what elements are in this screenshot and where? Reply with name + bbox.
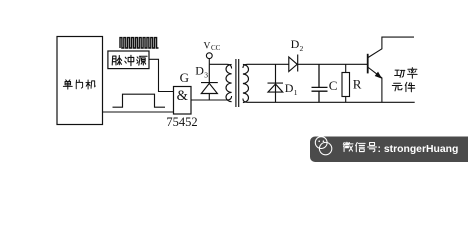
svg-text:3: 3 [204, 71, 208, 80]
transistor collector [368, 37, 414, 57]
pulse train icon [120, 38, 159, 48]
Vcc terminal circle [206, 53, 212, 59]
single pulse waveform symbol [113, 94, 166, 107]
watermark text 微信号: strongerHuang [343, 142, 353, 151]
transistor emitter with arrow [368, 68, 382, 103]
transformer T1 secondary winding [243, 65, 249, 103]
svg-text:75452: 75452 [166, 115, 197, 129]
transformer T1 primary winding [226, 65, 232, 102]
resistor R [345, 64, 347, 102]
svg-text:CC: CC [211, 44, 221, 52]
wire gate output to transformer primary bottom [191, 96, 232, 100]
svg-text:R: R [353, 77, 362, 92]
AND gate U1 75452 box [174, 87, 192, 115]
diode D3 (clamp across primary) [201, 64, 218, 100]
wire MCU to gate lower input [103, 111, 174, 113]
svg-text:2: 2 [300, 44, 304, 53]
svg-text:D: D [285, 81, 294, 95]
diode D1 (clamp across secondary) [268, 64, 284, 102]
svg-text:G: G [180, 70, 189, 85]
watermark banner [310, 137, 468, 163]
svg-text:: strongerHuang: : strongerHuang [378, 144, 459, 155]
svg-text:C: C [329, 78, 338, 93]
svg-text:D: D [195, 64, 204, 78]
transistor Q1 (power element driver) [367, 54, 369, 74]
wechat logo bubbles [315, 137, 327, 149]
transformer core [236, 59, 239, 107]
svg-text:D: D [291, 37, 300, 51]
wire pulse source to gate upper input [149, 59, 174, 91]
wire Vcc to primary top [209, 59, 231, 69]
svg-text:1: 1 [294, 88, 298, 97]
capacitor C [312, 64, 328, 102]
wire secondary top rail [243, 64, 289, 68]
wire secondary bottom rail [243, 99, 415, 103]
pulse source box 脉冲源 [108, 51, 149, 69]
svg-text:&: & [177, 88, 189, 104]
svg-text:V: V [204, 42, 211, 52]
label 功率元件 (power element) [395, 70, 405, 77]
microcontroller box 单片机 [57, 37, 103, 125]
diode D2 (series in top rail) [289, 55, 367, 72]
